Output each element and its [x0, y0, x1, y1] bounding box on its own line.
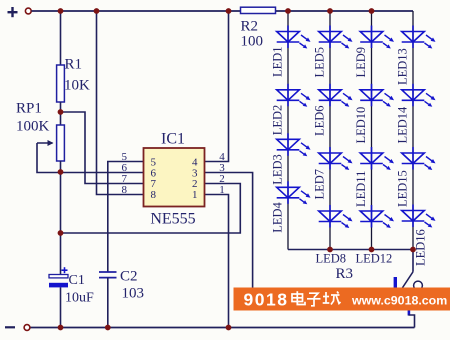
- potentiometer RP1: [57, 125, 65, 161]
- svg-text:10K: 10K: [64, 78, 90, 94]
- hanzi zi: [307, 293, 321, 306]
- wire: LED column 1: [287, 11, 289, 250]
- wire: LED bottom rail: [288, 249, 413, 251]
- wire: R1 to RP1: [60, 102, 62, 126]
- LED7: [319, 147, 353, 170]
- svg-text:R2: R2: [241, 19, 259, 35]
- svg-text:LED2: LED2: [271, 105, 285, 136]
- switch contact bar: [394, 277, 397, 289]
- resistor R1: [57, 65, 65, 102]
- svg-text:C1: C1: [69, 273, 85, 288]
- wire: pin7 net from R1/RP1 junction: [61, 112, 144, 184]
- LED8: [319, 205, 353, 228]
- svg-text:LED4: LED4: [271, 202, 285, 233]
- switch contact circle: [414, 281, 423, 290]
- wire: C1 to ground rail: [60, 287, 62, 327]
- wire: pin5 net to C2: [108, 162, 144, 273]
- svg-text:8: 8: [122, 184, 128, 196]
- capacitor C1: [49, 267, 94, 305]
- svg-text:RP1: RP1: [16, 101, 42, 117]
- svg-text:LED6: LED6: [313, 105, 327, 136]
- svg-text:LED14: LED14: [396, 106, 410, 144]
- LED4: [277, 181, 311, 204]
- LED10: [360, 84, 394, 107]
- node: pin1/ground: [226, 325, 232, 331]
- svg-text:100: 100: [241, 34, 264, 50]
- node: +V/col2: [327, 8, 333, 14]
- wire: LED column 4: [412, 11, 414, 250]
- node: +V/col1: [285, 8, 291, 14]
- node: C1/ground: [58, 325, 64, 331]
- node: ledrail/col3: [369, 247, 375, 253]
- op-amp timer IC1 NE555: [122, 131, 226, 228]
- watermark banner: [234, 288, 450, 311]
- svg-text:NE555: NE555: [150, 211, 195, 228]
- svg-text:C2: C2: [120, 269, 138, 285]
- node: trigger/C1: [58, 230, 64, 236]
- svg-text:1: 1: [219, 184, 225, 196]
- terminal T2 (-): [24, 325, 30, 331]
- LED5: [319, 26, 353, 49]
- hanzi cheng: [323, 292, 341, 305]
- svg-text:LED8: LED8: [316, 252, 347, 266]
- svg-text:1: 1: [192, 189, 198, 201]
- wire: pin1 ground net: [205, 195, 229, 328]
- LED16: [402, 205, 436, 228]
- wire: switch to ground rail below banner: [408, 309, 415, 328]
- LED12: [360, 205, 394, 228]
- node: R1/RP1/pin7: [58, 109, 64, 115]
- hanzi dian: [292, 291, 305, 304]
- wire: pin6 net: [61, 172, 144, 174]
- svg-text:100K: 100K: [16, 119, 50, 135]
- svg-text:LED10: LED10: [354, 107, 368, 144]
- pin labels inside left: [151, 156, 157, 201]
- wire: LED column 2: [329, 11, 331, 250]
- svg-text:www.c9018.com: www.c9018.com: [351, 294, 447, 308]
- svg-text:LED5: LED5: [313, 47, 327, 78]
- LED1: [277, 26, 311, 49]
- resistor R2: [241, 7, 276, 49]
- node: C2/ground: [105, 325, 111, 331]
- svg-text:R1: R1: [65, 57, 83, 73]
- wire: pin8 VCC net: [97, 11, 144, 195]
- switch S1 lever: [394, 250, 423, 290]
- terminal T1 (+): [25, 8, 31, 14]
- pin labels inside right: [192, 156, 198, 201]
- svg-text:LED7: LED7: [313, 169, 327, 200]
- svg-text:LED3: LED3: [271, 154, 285, 185]
- plus sign: [8, 7, 18, 17]
- node: ledrail/col2: [327, 247, 333, 253]
- svg-text:IC1: IC1: [161, 131, 185, 148]
- wire: bottom ground rail: [31, 327, 415, 329]
- svg-text:8: 8: [151, 189, 157, 201]
- wire: trigger net pin2: [61, 184, 241, 234]
- svg-text:LED15: LED15: [396, 170, 410, 207]
- wire: pin3 output net: [205, 173, 253, 289]
- capacitor C2: [99, 269, 144, 302]
- wire: RP1 bottom to C1: [60, 161, 62, 275]
- svg-text:LED12: LED12: [356, 252, 393, 266]
- node: +V/pin4: [226, 8, 232, 14]
- svg-text:LED13: LED13: [396, 48, 410, 85]
- LED14: [402, 84, 436, 107]
- wire: pin4 reset net: [205, 11, 229, 162]
- wire: wiper return to bottom terminal: [37, 143, 61, 173]
- LED11: [360, 147, 394, 170]
- LED9: [360, 26, 394, 49]
- svg-text:R3: R3: [336, 266, 354, 282]
- LED15: [402, 147, 436, 170]
- LED13: [402, 26, 436, 49]
- pin numbers outside right: [219, 151, 225, 196]
- wire: R1 top drop: [60, 11, 62, 66]
- svg-text:LED11: LED11: [354, 171, 368, 207]
- minus sign: [5, 326, 15, 328]
- LED6: [319, 84, 353, 107]
- svg-text:LED1: LED1: [271, 46, 285, 77]
- node: +V/col3: [369, 8, 375, 14]
- wire: top +V rail: [32, 10, 414, 12]
- node: +V/pin8: [94, 8, 100, 14]
- node: ledrail/switch: [410, 247, 416, 253]
- wire: C2 to ground rail: [107, 278, 109, 328]
- svg-text:10uF: 10uF: [65, 291, 94, 306]
- node: +V/R1: [58, 8, 64, 14]
- LED3: [277, 133, 311, 156]
- svg-text:LED9: LED9: [354, 47, 368, 78]
- LED2: [277, 84, 311, 107]
- node: wiper/pin6: [58, 169, 64, 175]
- wire: LED column 3: [371, 11, 373, 250]
- svg-text:9018: 9018: [244, 290, 289, 310]
- svg-text:LED16: LED16: [414, 229, 428, 266]
- wire: RP1 wiper arrow: [37, 142, 53, 144]
- pin numbers outside left: [122, 151, 128, 196]
- svg-text:103: 103: [122, 286, 145, 302]
